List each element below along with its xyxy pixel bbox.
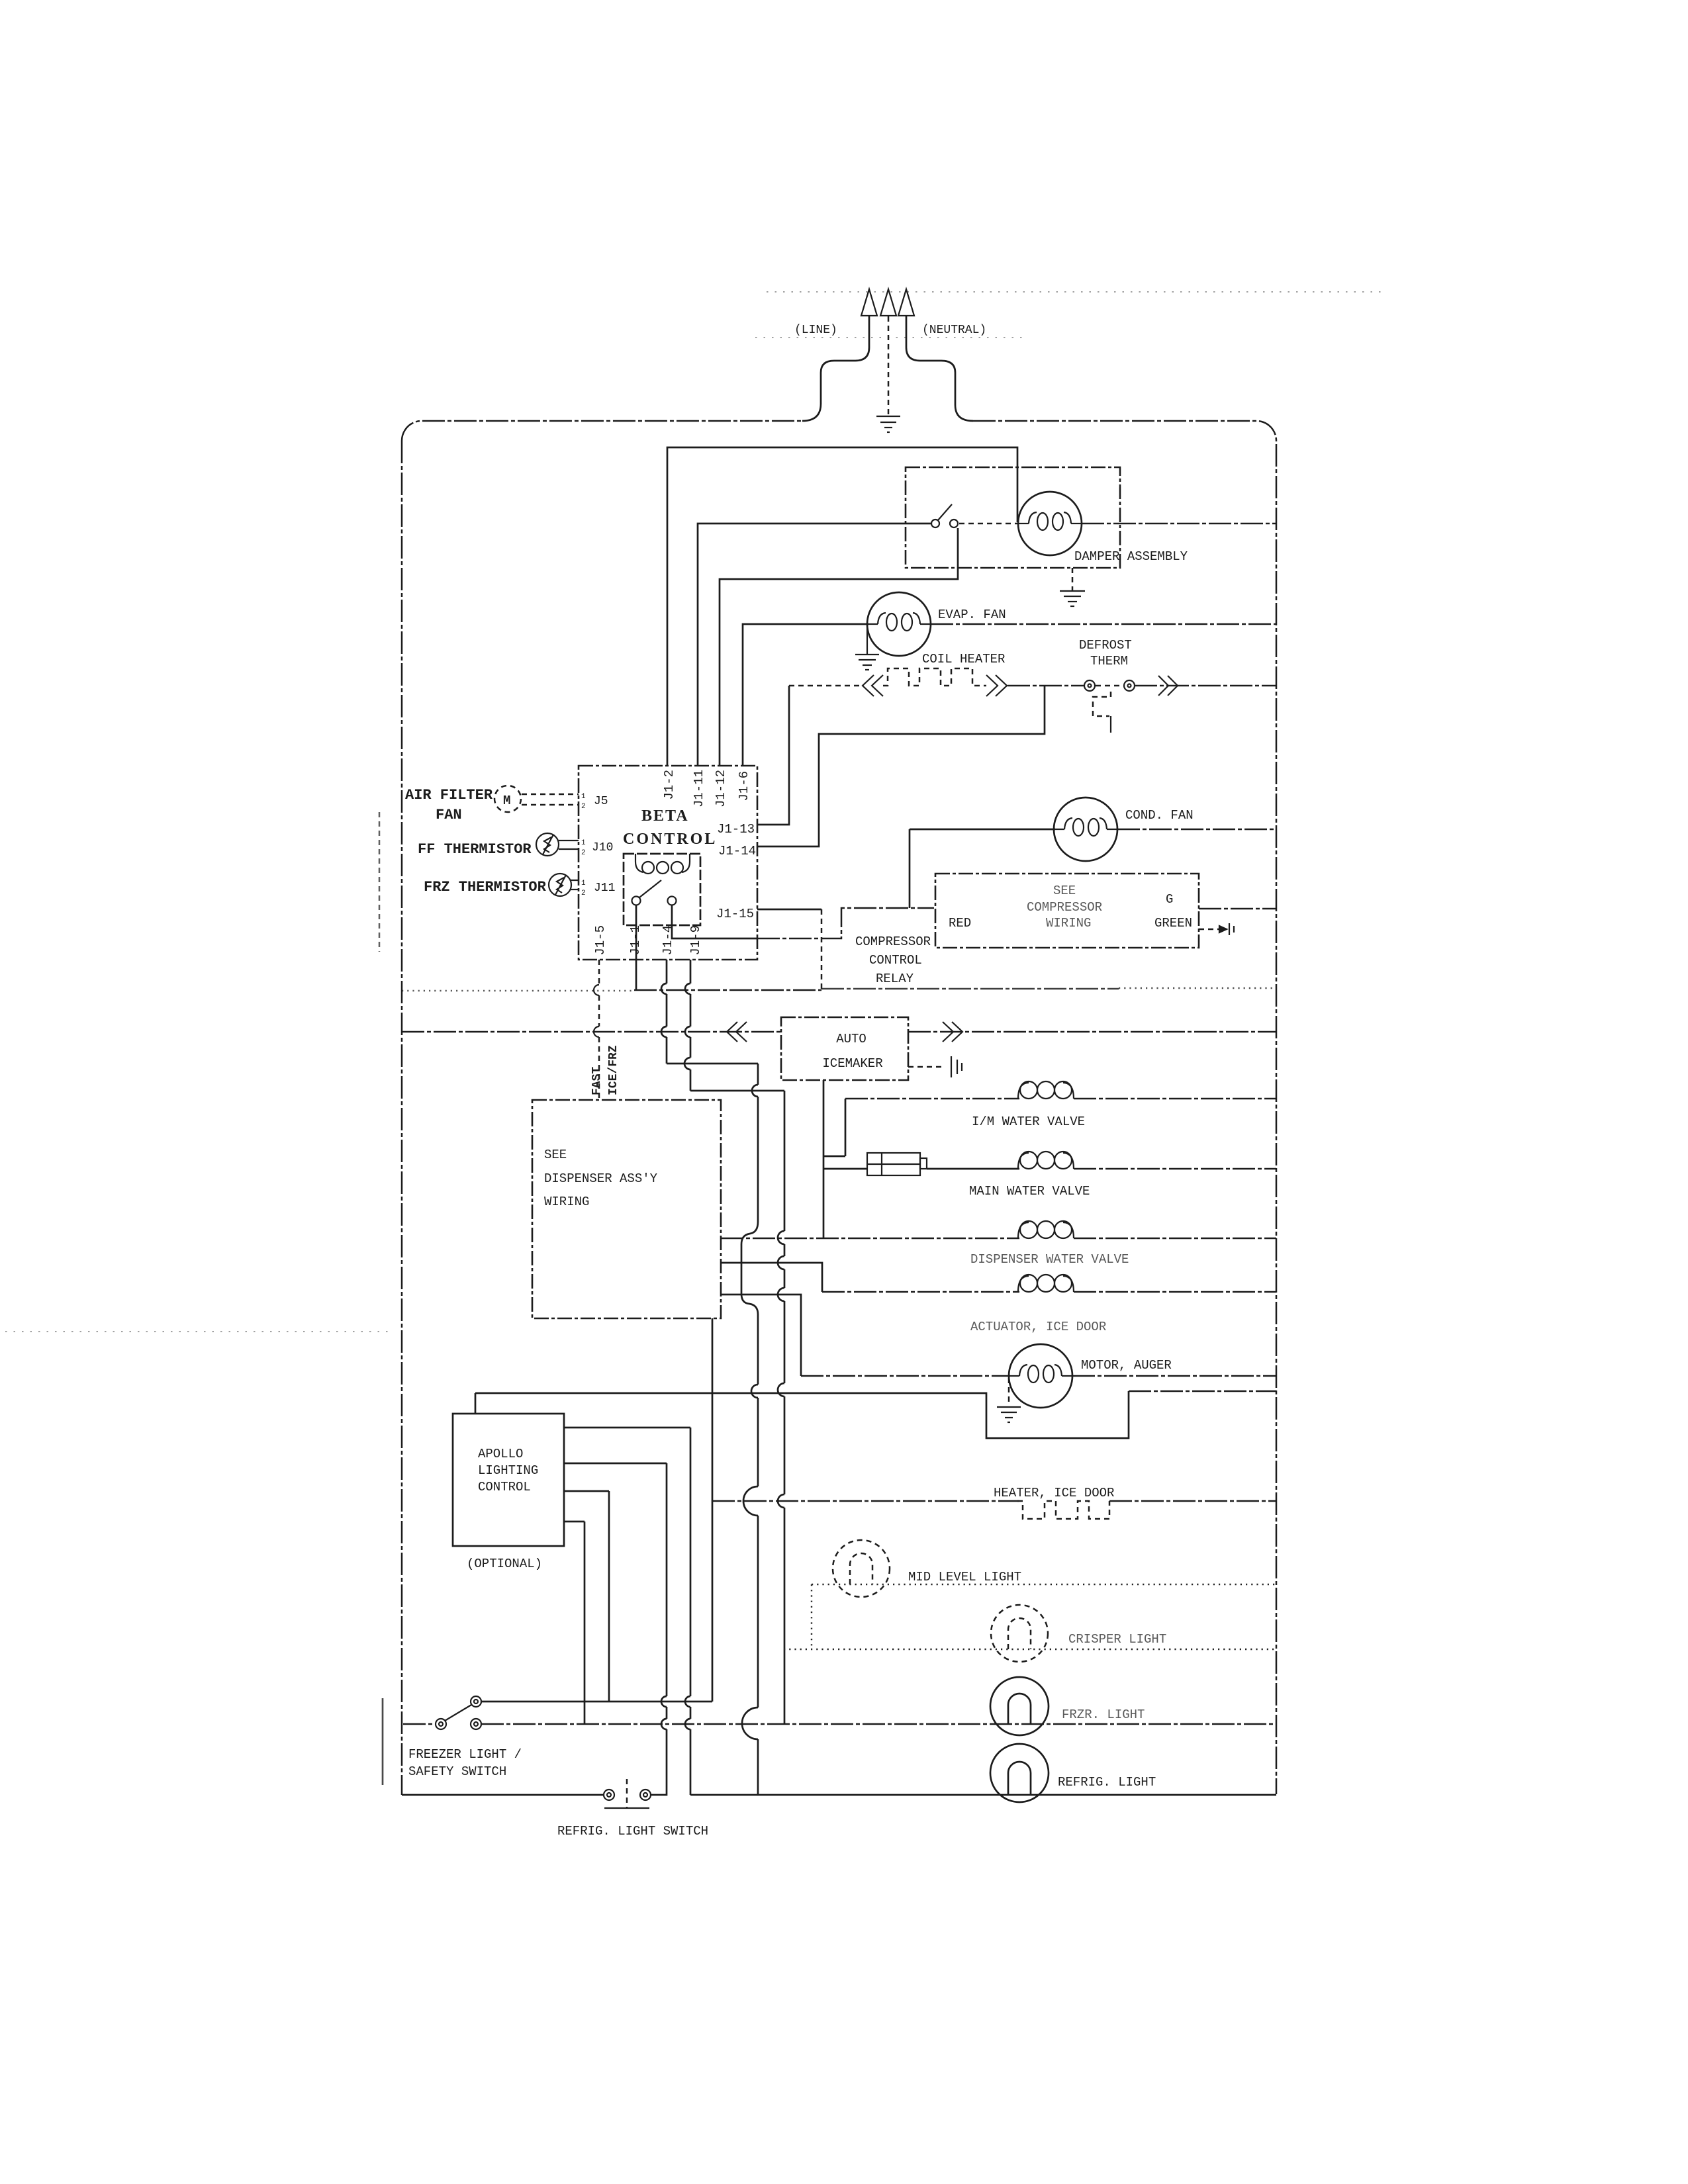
wire: apollo top pin to light feed line (475, 1393, 477, 1414)
svg-text:J1-11: J1-11 (692, 770, 706, 807)
air filter fan motor circle dashed (494, 786, 521, 812)
resistor: heater ice door (1017, 1501, 1109, 1519)
wire: apollo pin C down (564, 1491, 609, 1702)
svg-text:SAFETY SWITCH: SAFETY SWITCH (408, 1764, 506, 1779)
wire: cond fan drop to RED line (909, 829, 911, 908)
svg-text:HEATER, ICE DOOR: HEATER, ICE DOOR (994, 1486, 1114, 1500)
wire: light feed to border (1129, 1390, 1276, 1392)
outer enclosure border: bottom-left segment (402, 1794, 604, 1796)
plug prong arrow NEUTRAL (898, 289, 914, 316)
chevron left coil heater (863, 675, 883, 696)
hop J1-9 over upper switch line (685, 1696, 690, 1707)
svg-text:J11: J11 (594, 882, 615, 895)
crisper light lamp dashed circle (991, 1605, 1048, 1662)
svg-text:J1-5: J1-5 (593, 925, 608, 956)
svg-text:CONTROL: CONTROL (623, 831, 717, 848)
wire: mid level light dotted line (812, 1584, 1276, 1585)
plug prong arrow LINE (861, 289, 877, 316)
relay coil loops (635, 862, 690, 874)
frzr light lamp circle (990, 1677, 1049, 1735)
wire: damper coil to right border (1082, 523, 1276, 525)
wire: apollo pin B to J1-4 bus (564, 1463, 667, 1465)
coil: dispenser water valve (1018, 1221, 1074, 1238)
ground arrow: compressor green (1199, 923, 1234, 935)
defrost therm terminal right (1124, 680, 1135, 691)
svg-text:RED: RED (949, 916, 971, 931)
svg-text:J1-12: J1-12 (714, 770, 728, 807)
hop J1-4 over upper switch line (661, 1696, 667, 1707)
svg-text:ICEMAKER: ICEMAKER (822, 1056, 882, 1071)
svg-text:APOLLO: APOLLO (478, 1447, 523, 1461)
svg-text:WIRING: WIRING (544, 1195, 589, 1209)
evap fan coil glyph (867, 613, 931, 631)
hop J1-9 over J1-4 branch (684, 1058, 690, 1069)
wire: I/M valve to border (1074, 1098, 1276, 1100)
svg-text:GREEN: GREEN (1154, 916, 1192, 931)
motor auger coil glyph (1009, 1365, 1072, 1383)
svg-text:2: 2 (581, 889, 586, 897)
mid level lamp filament (850, 1553, 872, 1584)
outer enclosure border: left edge (401, 441, 403, 1795)
wire: J1-6 to evap fan (743, 624, 868, 766)
svg-text:CONTROL: CONTROL (869, 953, 922, 968)
svg-text:FAST: FAST (590, 1067, 604, 1095)
svg-text:2: 2 (581, 803, 586, 811)
damper switch contact left (931, 520, 939, 527)
wire: apollo pin A to J1-9 bus (564, 1427, 690, 1429)
wire: FRZ thermistor pair (571, 880, 579, 889)
wire: FF thermistor pair (559, 841, 579, 849)
damper assembly dashed enclosure (906, 467, 1120, 568)
plug prong arrow ground (880, 289, 896, 316)
wire: J1-2 to damper coil feed (667, 447, 1017, 766)
svg-text:DEFROST: DEFROST (1079, 638, 1132, 653)
wire: relay right contact to compressor RED (672, 905, 757, 938)
wire: ground lead dashed (888, 316, 890, 416)
cond fan coil glyph (1054, 818, 1117, 836)
svg-text:AUTO: AUTO (836, 1032, 867, 1046)
svg-text:MAIN WATER VALVE: MAIN WATER VALVE (969, 1184, 1090, 1199)
svg-text:FRZ THERMISTOR: FRZ THERMISTOR (424, 879, 547, 895)
svg-text:ICE/FRZ: ICE/FRZ (607, 1045, 620, 1095)
svg-text:(NEUTRAL): (NEUTRAL) (922, 324, 986, 337)
hop x1184 over actuator feed (778, 1256, 784, 1269)
relay coil stubs (635, 854, 636, 862)
wire: cond fan feed (910, 829, 1055, 831)
chevron left icemaker (727, 1022, 747, 1042)
wire: air filter fan dashed pair (522, 794, 579, 796)
wire: icemaker bottom feed (823, 1080, 867, 1238)
svg-text:J1-6: J1-6 (737, 771, 751, 801)
svg-text:COIL HEATER: COIL HEATER (922, 652, 1005, 666)
auto icemaker box (781, 1017, 908, 1080)
refrig lamp filament (1008, 1762, 1031, 1794)
svg-text:(LINE): (LINE) (794, 324, 837, 337)
relay box inside BETA (624, 854, 700, 925)
svg-text:1: 1 (581, 793, 586, 801)
wire: evap fan to right border (931, 623, 1276, 625)
svg-text:ACTUATOR, ICE DOOR: ACTUATOR, ICE DOOR (970, 1320, 1106, 1334)
damper switch contact right (950, 520, 958, 527)
svg-text:(OPTIONAL): (OPTIONAL) (467, 1557, 542, 1571)
FRZ thermistor glyph (555, 875, 566, 895)
svg-text:DISPENSER ASS'Y: DISPENSER ASS'Y (544, 1171, 658, 1186)
wire: main water valve line (927, 1168, 1019, 1170)
chevron right icemaker (943, 1022, 962, 1042)
cond fan motor circle (1054, 797, 1117, 861)
mid level light lamp dashed circle (833, 1540, 890, 1597)
wire: dispenser box bottom vertical x1076 (712, 1318, 714, 1702)
hop x1184 over dispenser valve line (778, 1231, 784, 1244)
svg-text:DAMPER ASSEMBLY: DAMPER ASSEMBLY (1074, 549, 1188, 564)
ground: damper assembly (1060, 568, 1085, 606)
ground: icemaker (908, 1056, 962, 1077)
relay contact left (632, 897, 641, 905)
hop x1145 over J1-9 branch (752, 1085, 758, 1097)
svg-text:CRISPER LIGHT: CRISPER LIGHT (1068, 1632, 1166, 1647)
wire: between defrost terminals (1096, 685, 1123, 687)
scan noise dotted line left margin (5, 1331, 392, 1332)
FF thermistor circle (536, 833, 559, 856)
wire: icemaker line right (908, 1031, 1276, 1033)
svg-text:MID LEVEL LIGHT: MID LEVEL LIGHT (908, 1570, 1021, 1584)
svg-text:LIGHTING: LIGHTING (478, 1463, 538, 1478)
refrig light lamp circle (990, 1744, 1049, 1802)
wire: plug left lead (LINE) (802, 316, 869, 421)
wire: relay left contact down through J1-1 (635, 905, 637, 991)
wire: auto icemaker line left (402, 1031, 781, 1033)
wire: J1-13 stub to coil heater (757, 686, 789, 825)
coil: actuator ice door (1018, 1275, 1074, 1292)
defrost therm stub (1110, 716, 1111, 733)
wire: freezer light line (481, 1723, 1276, 1725)
apollo lighting control box (453, 1414, 564, 1546)
hop J1-4 over freezer light line (661, 1719, 667, 1729)
hop J1-5 over icemaker line (594, 1026, 599, 1037)
wire: branch to I/M valve (823, 1099, 845, 1156)
hop x1184 over heater line (778, 1494, 784, 1508)
chevron right coil heater (986, 675, 1007, 696)
freezer switch lever (445, 1705, 471, 1721)
wire: J1-4 branch right (667, 1063, 758, 1065)
wire: J1-12 to damper switch right contact (720, 528, 958, 766)
svg-text:I/M WATER VALVE: I/M WATER VALVE (972, 1115, 1085, 1129)
wire: dispenser valve to border (1074, 1238, 1276, 1240)
ground symbol below plug (876, 416, 900, 432)
hop J1-4 over relay line (661, 983, 667, 994)
wire: J1-5 dashed with hops (598, 960, 600, 1100)
hop J1-5 over relay line (594, 985, 599, 995)
hop x1145 over freezer light line (big) (742, 1707, 758, 1739)
hop J1-4 over icemaker line (661, 1026, 667, 1037)
wire: J1-9 branch right (690, 1090, 784, 1092)
svg-text:FREEZER LIGHT /: FREEZER LIGHT / (408, 1747, 522, 1762)
wire: J1-15 stub (757, 909, 821, 911)
hop x1184 over actuator line (778, 1288, 784, 1301)
ground: evap fan (855, 624, 879, 670)
FRZ thermistor circle (549, 874, 571, 896)
wire: heater ice door line (712, 1500, 1019, 1502)
wire: I/M water valve line (845, 1098, 1019, 1100)
wire: J1-11 to damper switch (698, 523, 931, 766)
svg-text:DISPENSER WATER VALVE: DISPENSER WATER VALVE (970, 1252, 1129, 1267)
hop x1184 over light feed line (778, 1383, 784, 1396)
svg-text:J1-9: J1-9 (688, 925, 703, 956)
svg-text:M: M (503, 794, 510, 808)
hop x1145 over heater line (big) (743, 1486, 758, 1516)
svg-text:SEE: SEE (544, 1148, 567, 1162)
wire: J1-14 to coil heater return (757, 686, 1045, 846)
svg-text:J1-13: J1-13 (717, 822, 755, 837)
wire: main valve to border (1074, 1168, 1276, 1170)
dispenser assy dashed box (532, 1100, 721, 1318)
scan noise tick left upper (379, 812, 381, 952)
wire: actuator line (822, 1291, 1019, 1293)
damper motor coil glyph (1018, 512, 1082, 530)
wire: J1-9 vertical with hops (690, 960, 692, 1795)
svg-text:J1-2: J1-2 (662, 770, 677, 800)
svg-text:SEE: SEE (1053, 884, 1076, 898)
svg-text:WIRING: WIRING (1046, 916, 1091, 931)
wire: cond fan to right border (1117, 829, 1276, 831)
coil: I/M water valve (1018, 1081, 1074, 1099)
fuse: thermal cutoff (867, 1153, 927, 1175)
wire: relay output dashed to RED terminal (757, 908, 934, 938)
svg-text:J1-4: J1-4 (661, 925, 675, 956)
svg-text:BETA: BETA (641, 807, 689, 825)
wire: damper switch to coil (959, 523, 1018, 525)
damper motor circle (1018, 492, 1082, 555)
wire: actuator feed (721, 1263, 822, 1292)
compressor wiring dashed box (935, 874, 1199, 948)
svg-text:EVAP. FAN: EVAP. FAN (938, 608, 1006, 622)
hop J1-9 over freezer light line (685, 1719, 690, 1729)
hop J1-9 over relay line (685, 983, 690, 994)
defrost therm bimetal dashed (1093, 692, 1111, 716)
outer enclosure border: top edge right + right edge (973, 421, 1276, 1794)
damper switch lever (938, 504, 952, 520)
wire: compressor control relay line right (821, 988, 1119, 990)
svg-text:COMPRESSOR: COMPRESSOR (1027, 900, 1102, 915)
svg-text:REFRIG. LIGHT SWITCH: REFRIG. LIGHT SWITCH (557, 1824, 708, 1839)
relay contact right (668, 897, 677, 905)
motor auger circle (1009, 1344, 1072, 1408)
svg-text:2: 2 (581, 849, 586, 857)
crisper lamp filament (1008, 1618, 1031, 1649)
freezer light / safety switch contacts (436, 1696, 481, 1729)
wire: GREEN to right border (1199, 908, 1276, 910)
wire: bus vertical x1184 (784, 1091, 786, 1723)
frzr lamp filament (1008, 1694, 1031, 1723)
wire: J1-15 down (821, 909, 823, 989)
wire: coil heater feed dashed (789, 685, 861, 687)
scan noise tick left lower (382, 1698, 384, 1785)
svg-text:RELAY: RELAY (876, 972, 914, 986)
wire: refrig light line (690, 1794, 1276, 1796)
BETA CONTROL box (579, 766, 757, 960)
refrig switch bar (604, 1807, 649, 1809)
wire: motor auger line (801, 1375, 1010, 1377)
svg-text:1: 1 (581, 839, 586, 847)
wire: crisper light dotted line (784, 1649, 1276, 1650)
svg-text:FAN: FAN (436, 807, 462, 823)
svg-text:J10: J10 (592, 841, 613, 854)
scan noise dotted line top (767, 291, 1383, 293)
svg-text:AIR FILTER: AIR FILTER (405, 787, 493, 803)
svg-text:CONTROL: CONTROL (478, 1480, 531, 1494)
svg-text:J1-15: J1-15 (716, 907, 754, 921)
wire: defrost therm to right border (1135, 685, 1276, 687)
svg-text:THERM: THERM (1090, 654, 1128, 668)
svg-text:FF THERMISTOR: FF THERMISTOR (418, 841, 532, 858)
wire: apollo pin D down (564, 1522, 585, 1724)
svg-text:J1-14: J1-14 (718, 844, 756, 858)
wire: compressor control relay line across (402, 990, 634, 991)
relay lever (639, 880, 661, 897)
svg-text:MOTOR, AUGER: MOTOR, AUGER (1081, 1358, 1172, 1373)
wire: motor auger to border (1072, 1375, 1276, 1377)
wire: dispenser water valve line (721, 1238, 1019, 1240)
wire: motor auger feed (721, 1295, 801, 1376)
wire: border stub to freezer switch (403, 1723, 436, 1725)
chevron right after defrost therm (1158, 676, 1178, 696)
resistor: coil heater (883, 668, 986, 686)
wire: J1-4 vertical with hops (651, 960, 667, 1795)
svg-text:G: G (1166, 892, 1173, 907)
wire: actuator to border (1074, 1291, 1276, 1293)
wire: light feed line (475, 1391, 1129, 1438)
defrost therm terminal left (1084, 680, 1095, 691)
wire: heater to border (1109, 1500, 1276, 1502)
ground: motor auger (997, 1378, 1021, 1422)
svg-text:1: 1 (581, 880, 586, 887)
svg-text:COND. FAN: COND. FAN (1125, 808, 1194, 823)
wire: coil heater to defrost therm (1008, 685, 1084, 687)
refrig switch plunger (626, 1779, 628, 1807)
wire: freezer switch upper line (481, 1701, 712, 1703)
wire: mid level riser dotted (811, 1584, 812, 1649)
refrig light switch contacts (604, 1790, 651, 1800)
svg-text:J5: J5 (594, 795, 608, 808)
hop x1145 over light feed line (751, 1385, 758, 1398)
wire: bus vertical x1145 (741, 1064, 758, 1795)
evap fan motor circle (867, 592, 931, 656)
FF thermistor glyph (543, 835, 553, 854)
coil: main water valve (1018, 1152, 1074, 1169)
svg-text:REFRIG. LIGHT: REFRIG. LIGHT (1058, 1775, 1156, 1790)
hop J1-9 over icemaker line (685, 1026, 690, 1037)
wire: plug right lead (NEUTRAL) (906, 316, 973, 421)
svg-text:COMPRESSOR: COMPRESSOR (855, 934, 931, 949)
outer enclosure border: top-left corner and top edge to plug (402, 421, 802, 441)
scan noise dotted line 2 (755, 337, 1023, 338)
svg-text:FRZR. LIGHT: FRZR. LIGHT (1062, 1707, 1145, 1722)
